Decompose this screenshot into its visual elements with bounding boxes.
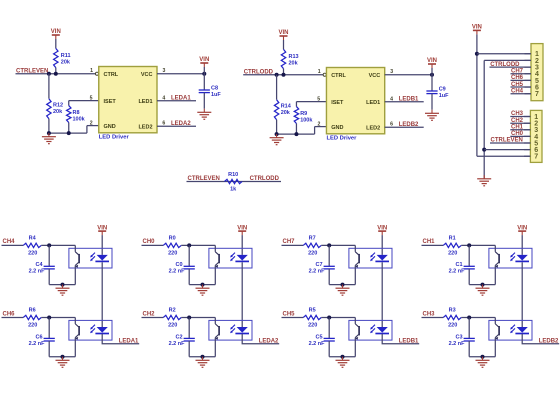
- svg-text:R13: R13: [289, 54, 299, 60]
- svg-text:LED Driver: LED Driver: [326, 136, 357, 142]
- svg-text:C4: C4: [35, 262, 43, 268]
- svg-text:220: 220: [168, 250, 177, 256]
- svg-text:LEDB2: LEDB2: [539, 338, 559, 344]
- svg-text:ISET: ISET: [331, 100, 344, 106]
- svg-text:2: 2: [318, 122, 321, 128]
- svg-text:1: 1: [318, 69, 321, 75]
- svg-text:LEDB1: LEDB1: [399, 338, 419, 344]
- svg-text:CTRLEVEN: CTRLEVEN: [491, 138, 523, 144]
- svg-text:LED1: LED1: [366, 100, 380, 106]
- svg-text:LEDA2: LEDA2: [259, 338, 279, 344]
- svg-text:LEDA1: LEDA1: [171, 96, 191, 102]
- svg-text:R14: R14: [281, 103, 292, 109]
- svg-text:R8: R8: [73, 110, 80, 116]
- svg-text:CH2: CH2: [143, 311, 156, 317]
- svg-text:220: 220: [308, 250, 317, 256]
- svg-text:20k: 20k: [289, 61, 299, 67]
- svg-text:LED Driver: LED Driver: [99, 135, 130, 141]
- svg-text:CH0: CH0: [143, 239, 156, 245]
- svg-text:R4: R4: [29, 236, 37, 242]
- svg-text:C6: C6: [35, 334, 42, 340]
- svg-text:GND: GND: [104, 124, 116, 130]
- svg-text:R6: R6: [29, 308, 36, 314]
- svg-text:C2: C2: [175, 334, 182, 340]
- svg-text:220: 220: [168, 322, 177, 328]
- svg-text:1uF: 1uF: [211, 92, 221, 98]
- svg-text:20k: 20k: [281, 110, 291, 116]
- svg-text:LEDB1: LEDB1: [399, 97, 419, 103]
- svg-text:2.2 nF: 2.2 nF: [29, 269, 46, 275]
- svg-text:2.2 nF: 2.2 nF: [309, 269, 326, 275]
- svg-text:CTRL: CTRL: [104, 72, 119, 78]
- svg-text:C9: C9: [439, 87, 446, 93]
- svg-text:R2: R2: [169, 308, 176, 314]
- svg-text:CH0: CH0: [511, 131, 524, 137]
- svg-text:LED2: LED2: [366, 126, 380, 132]
- svg-text:3: 3: [390, 69, 393, 75]
- svg-text:CH6: CH6: [511, 75, 524, 81]
- svg-text:3: 3: [163, 68, 166, 74]
- svg-text:5: 5: [90, 96, 93, 102]
- svg-text:C5: C5: [315, 334, 322, 340]
- svg-text:R10: R10: [228, 172, 238, 178]
- svg-text:100k: 100k: [73, 116, 86, 122]
- svg-text:C0: C0: [175, 262, 182, 268]
- svg-text:R1: R1: [449, 236, 456, 242]
- svg-text:CH4: CH4: [3, 239, 16, 245]
- svg-text:GND: GND: [331, 125, 343, 131]
- svg-text:220: 220: [28, 322, 37, 328]
- svg-text:CTRLEVEN: CTRLEVEN: [188, 176, 220, 182]
- svg-text:CH1: CH1: [511, 125, 524, 131]
- svg-text:C8: C8: [211, 86, 218, 92]
- svg-text:5: 5: [317, 97, 320, 103]
- svg-text:LEDB2: LEDB2: [399, 122, 419, 128]
- svg-text:CH7: CH7: [283, 239, 296, 245]
- svg-text:CH3: CH3: [423, 311, 436, 317]
- svg-text:CH2: CH2: [511, 118, 524, 124]
- svg-text:CH7: CH7: [511, 68, 524, 74]
- svg-text:R0: R0: [169, 236, 176, 242]
- svg-text:2.2 nF: 2.2 nF: [449, 269, 466, 275]
- svg-text:LEDA2: LEDA2: [171, 121, 191, 127]
- svg-text:C7: C7: [315, 262, 322, 268]
- svg-text:220: 220: [448, 250, 457, 256]
- svg-text:1k: 1k: [230, 186, 237, 192]
- svg-text:CH4: CH4: [511, 88, 524, 94]
- svg-text:1uF: 1uF: [439, 93, 449, 99]
- svg-text:CH5: CH5: [511, 82, 524, 88]
- svg-text:CTRLEVEN: CTRLEVEN: [16, 68, 48, 74]
- svg-text:CH6: CH6: [3, 311, 16, 317]
- svg-text:R9: R9: [300, 111, 307, 117]
- svg-text:CH3: CH3: [511, 111, 524, 117]
- svg-text:ISET: ISET: [104, 99, 117, 105]
- svg-text:7: 7: [534, 154, 538, 161]
- svg-text:CTRLODD: CTRLODD: [250, 176, 280, 182]
- svg-text:220: 220: [28, 250, 37, 256]
- svg-text:LED2: LED2: [138, 125, 152, 131]
- svg-text:C3: C3: [455, 334, 462, 340]
- svg-text:2.2 nF: 2.2 nF: [169, 341, 186, 347]
- svg-text:R12: R12: [53, 102, 63, 108]
- svg-text:R7: R7: [309, 236, 316, 242]
- svg-text:20k: 20k: [61, 60, 71, 66]
- svg-text:VCC: VCC: [141, 72, 153, 78]
- svg-text:LEDA1: LEDA1: [119, 338, 139, 344]
- svg-text:VCC: VCC: [369, 73, 381, 79]
- svg-text:220: 220: [308, 322, 317, 328]
- svg-text:R5: R5: [309, 308, 316, 314]
- svg-text:CTRL: CTRL: [331, 73, 346, 79]
- svg-text:2.2 nF: 2.2 nF: [169, 269, 186, 275]
- svg-text:7: 7: [535, 91, 539, 98]
- svg-text:2: 2: [90, 121, 93, 127]
- svg-text:R11: R11: [61, 53, 71, 59]
- svg-text:CTRLODD: CTRLODD: [490, 62, 520, 68]
- svg-text:20k: 20k: [53, 109, 63, 115]
- svg-text:C1: C1: [455, 262, 462, 268]
- svg-text:R3: R3: [449, 308, 456, 314]
- svg-text:220: 220: [448, 322, 457, 328]
- svg-text:LED1: LED1: [138, 99, 152, 105]
- svg-text:2.2 nF: 2.2 nF: [449, 341, 466, 347]
- svg-text:2.2 nF: 2.2 nF: [29, 341, 46, 347]
- svg-text:CH1: CH1: [423, 239, 436, 245]
- svg-text:100k: 100k: [300, 117, 313, 123]
- svg-text:CH5: CH5: [283, 311, 296, 317]
- svg-text:CTRLODD: CTRLODD: [244, 69, 274, 75]
- svg-text:1: 1: [90, 68, 93, 74]
- svg-text:2.2 nF: 2.2 nF: [309, 341, 326, 347]
